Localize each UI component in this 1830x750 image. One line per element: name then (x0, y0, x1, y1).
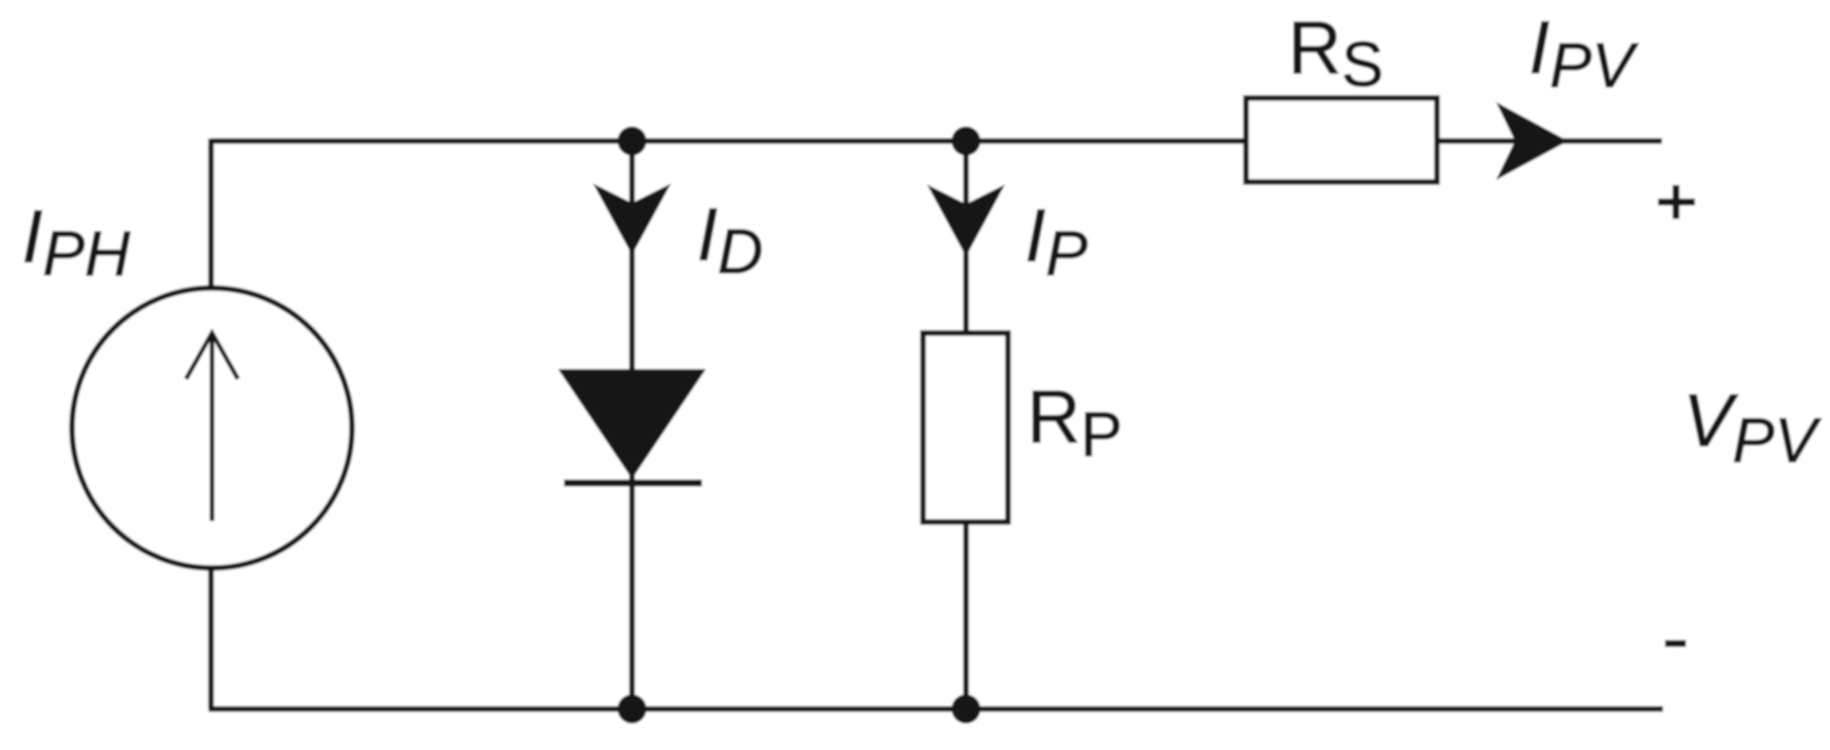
diode D1 cathode bar (564, 480, 702, 487)
wire left vertical (source top lead) (208, 139, 214, 289)
node D (bottom Rp junction) (952, 695, 981, 724)
current arrow IP (927, 185, 1005, 257)
wire top horizontal (211, 138, 1662, 144)
diode D1 triangle (558, 369, 706, 479)
wire left vertical (source bottom lead) (208, 567, 214, 709)
node C (bottom diode junction) (618, 695, 647, 724)
wire diode branch vertical (629, 141, 635, 709)
current arrow IPV (1496, 102, 1568, 180)
resistor RP body (923, 333, 1008, 522)
current arrow ID (593, 184, 671, 256)
node A (top diode junction) (618, 127, 647, 156)
plus terminal (1658, 185, 1695, 219)
node B (top Rp junction) (952, 127, 981, 156)
current source IPH circle (72, 288, 352, 568)
wire bottom horizontal (209, 706, 1664, 712)
wire Rp branch vertical (963, 141, 969, 709)
current source arrow (186, 333, 238, 521)
minus terminal (1665, 640, 1686, 647)
resistor RS body (1246, 98, 1437, 182)
